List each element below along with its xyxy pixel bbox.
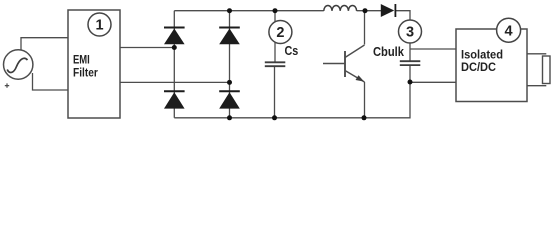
svg-text:Filter: Filter	[73, 65, 98, 79]
svg-text:Cbulk: Cbulk	[373, 45, 404, 59]
svg-text:EMI: EMI	[73, 52, 90, 66]
svg-text:4: 4	[505, 23, 513, 39]
svg-text:1: 1	[95, 18, 103, 34]
svg-text:2: 2	[276, 25, 284, 41]
svg-text:DC/DC: DC/DC	[461, 60, 496, 74]
svg-text:Cs: Cs	[285, 44, 299, 58]
svg-text:3: 3	[406, 25, 414, 41]
